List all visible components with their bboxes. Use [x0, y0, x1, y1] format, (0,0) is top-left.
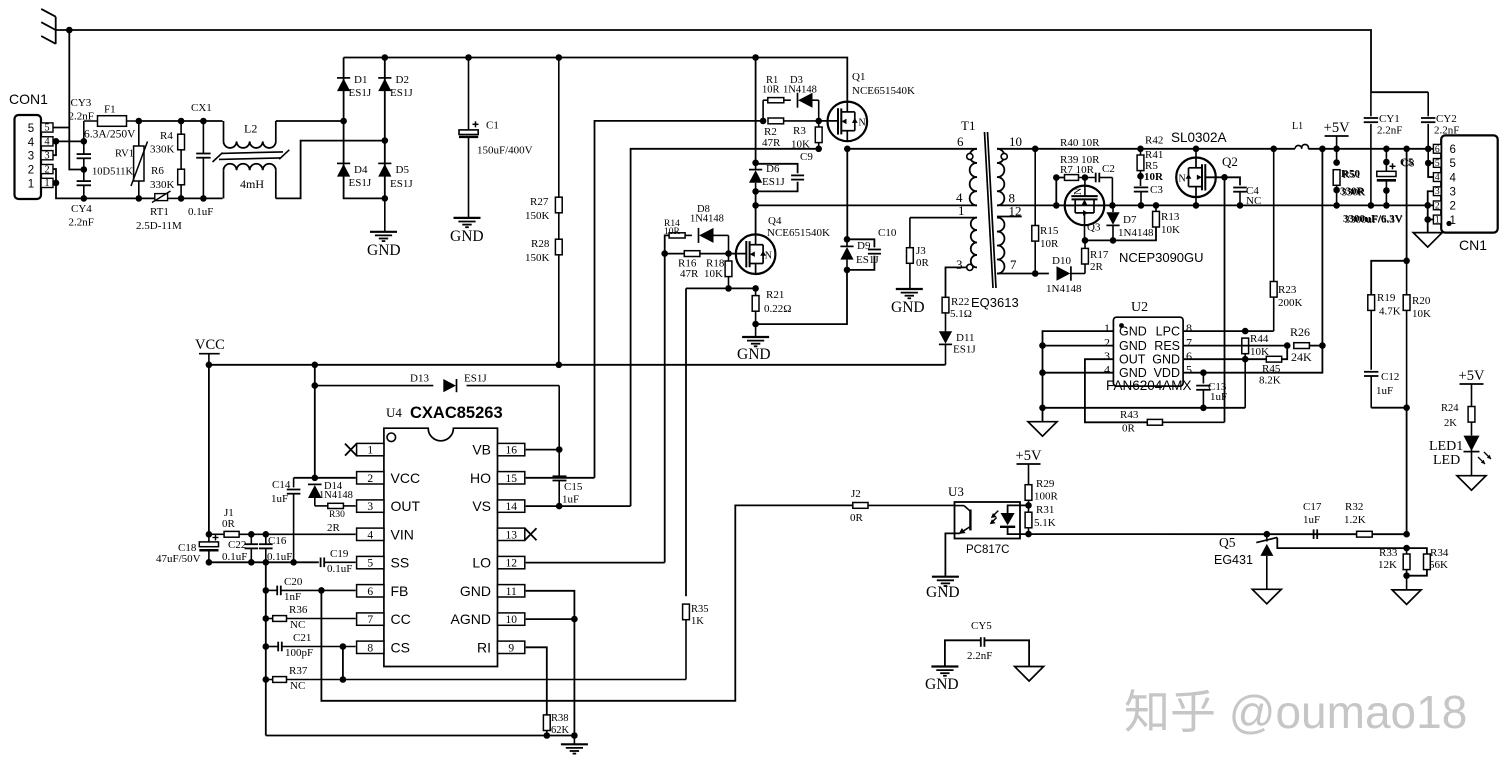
svg-text:GND: GND	[1119, 325, 1147, 339]
svg-text:10R: 10R	[1144, 171, 1164, 183]
svg-text:ES1J: ES1J	[464, 373, 487, 385]
inductor L2 common-mode choke	[223, 121, 225, 141]
svg-text:RT1: RT1	[150, 206, 169, 218]
node D6 bottom	[752, 188, 759, 195]
node C1 top	[465, 54, 472, 61]
svg-text:1: 1	[1104, 321, 1110, 335]
svg-text:LPC: LPC	[1156, 325, 1180, 339]
svg-text:6: 6	[367, 586, 373, 598]
resistor R18	[728, 254, 730, 261]
wire secondary GND rail	[997, 204, 1433, 206]
node R44 bottom	[1242, 356, 1249, 363]
wire gate to Q1	[819, 120, 839, 122]
ground CY5 right triangle	[1015, 667, 1044, 682]
wire U2 pin2	[1043, 345, 1114, 347]
node R50 bottom	[1333, 202, 1340, 209]
wire CON1 pin5 to earth node	[53, 127, 69, 129]
node VCC branch	[312, 362, 319, 369]
svg-text:R6: R6	[151, 165, 164, 177]
svg-text:R13: R13	[1161, 211, 1180, 223]
capacitor C9	[756, 164, 798, 174]
node D14 top	[312, 475, 319, 482]
node R27 top	[556, 54, 563, 61]
svg-text:U3: U3	[948, 484, 964, 499]
svg-text:0R: 0R	[850, 512, 864, 524]
no-connect U4 pin13	[525, 528, 537, 540]
svg-text:C21: C21	[293, 632, 311, 644]
node pin4/CY3/fuse	[81, 138, 88, 145]
capacitor CY3	[77, 153, 91, 155]
capacitor C16	[259, 543, 273, 545]
svg-text:GND: GND	[737, 346, 771, 363]
resistor R34	[1407, 548, 1427, 554]
ground U4 area	[573, 736, 575, 745]
svg-text:R21: R21	[766, 289, 784, 301]
svg-text:1N4148: 1N4148	[1046, 283, 1082, 295]
svg-text:150K: 150K	[525, 252, 550, 264]
svg-text:C20: C20	[284, 576, 303, 588]
svg-text:NC: NC	[1246, 195, 1261, 207]
node gate/OUT	[1221, 174, 1228, 181]
transistor Q2	[1195, 149, 1197, 158]
svg-text:CY5: CY5	[971, 620, 992, 632]
svg-text:NCE651540K: NCE651540K	[852, 85, 915, 97]
resistor R36	[266, 618, 273, 620]
svg-text:R26: R26	[1290, 325, 1310, 339]
svg-text:5: 5	[1186, 363, 1192, 377]
wire VCC pin line	[294, 477, 356, 479]
svg-text:FB: FB	[391, 583, 409, 599]
svg-text:CY1: CY1	[1379, 113, 1400, 125]
svg-text:CON1: CON1	[9, 91, 48, 107]
resistor R27	[558, 58, 560, 198]
svg-text:1nF: 1nF	[284, 591, 301, 603]
wire RES line	[1183, 345, 1287, 347]
connector CON1	[15, 115, 42, 199]
wire U2 pin3 OUT	[1085, 359, 1147, 422]
wire switch node column	[846, 149, 848, 240]
svg-text:N: N	[859, 118, 866, 129]
node R5/C3	[1137, 173, 1144, 180]
svg-text:VCC: VCC	[195, 337, 225, 353]
diode D10	[1070, 266, 1072, 280]
svg-text:CY4: CY4	[71, 203, 92, 215]
svg-text:4.7K: 4.7K	[1379, 306, 1401, 318]
node Q2 source	[1193, 202, 1200, 209]
ground U2 triangle	[1028, 422, 1057, 437]
svg-text:10K: 10K	[1412, 308, 1431, 320]
svg-text:8: 8	[1186, 321, 1192, 335]
svg-text:EG431: EG431	[1214, 553, 1253, 567]
resistor R4	[178, 134, 185, 150]
wire AC line top	[139, 120, 223, 122]
svg-text:0R: 0R	[916, 257, 930, 269]
wire VS line	[631, 149, 819, 506]
svg-text:5: 5	[44, 123, 49, 134]
node CY2/pin5	[1425, 160, 1432, 167]
svg-text:C2: C2	[1102, 163, 1115, 175]
wire Q2 gate	[1206, 177, 1241, 185]
svg-text:CX1: CX1	[191, 102, 212, 114]
svg-text:4: 4	[44, 137, 50, 148]
diode D14	[308, 483, 322, 485]
svg-text:6: 6	[1186, 349, 1192, 363]
svg-text:R34: R34	[1430, 547, 1449, 559]
svg-text:4: 4	[367, 529, 373, 541]
wire bridge left column	[344, 58, 385, 199]
wire SS row line	[209, 561, 319, 563]
node C22 bottom	[248, 559, 255, 566]
node primary pin4	[752, 202, 759, 209]
resistor R17	[1084, 264, 1086, 274]
svg-text:8: 8	[367, 642, 373, 654]
transistor Q3	[1084, 178, 1086, 197]
diode D5	[378, 162, 391, 164]
capacitor C18	[208, 534, 210, 542]
node C13 bottom	[1200, 405, 1207, 412]
svg-text:2.2nF: 2.2nF	[967, 650, 992, 662]
wire pin12 stub	[997, 216, 1022, 218]
svg-text:5: 5	[1435, 159, 1440, 169]
svg-text:N: N	[765, 250, 772, 261]
resistor J3	[909, 218, 911, 248]
node gnd bus corner	[571, 732, 578, 739]
svg-text:56K: 56K	[1429, 559, 1448, 571]
svg-text:R30: R30	[329, 510, 345, 520]
svg-text:330K: 330K	[150, 179, 175, 191]
svg-text:N: N	[1179, 174, 1186, 185]
resistor R44	[1242, 338, 1249, 354]
node R37 left	[263, 676, 270, 683]
svg-text:R28: R28	[531, 238, 550, 250]
svg-text:10R: 10R	[1040, 238, 1059, 250]
svg-text:D10: D10	[1052, 255, 1071, 267]
svg-text:10: 10	[505, 614, 517, 626]
wire D11 to VCC line	[944, 364, 947, 366]
svg-text:1uF: 1uF	[271, 493, 288, 505]
svg-text:R43: R43	[1120, 409, 1139, 421]
node +5V/VDD branch	[1319, 146, 1326, 153]
svg-text:LED1: LED1	[1429, 439, 1463, 454]
node divider mid	[1403, 404, 1410, 411]
svg-text:62K: 62K	[551, 725, 570, 736]
svg-text:R33: R33	[1379, 547, 1398, 559]
svg-text:LED: LED	[1433, 453, 1460, 468]
svg-text:GND: GND	[891, 299, 925, 316]
svg-text:R44: R44	[1250, 333, 1269, 345]
resistor R23	[1273, 149, 1275, 282]
svg-text:PC817C: PC817C	[966, 544, 1009, 556]
capacitor CY4	[77, 180, 91, 182]
svg-text:+5V: +5V	[1324, 120, 1350, 136]
node C21 left	[263, 643, 270, 650]
svg-text:Q3: Q3	[1087, 222, 1101, 234]
resistor R14	[665, 235, 669, 253]
node Q4 gate net	[661, 250, 668, 257]
svg-text:3: 3	[956, 257, 963, 272]
svg-text:Q2: Q2	[1222, 154, 1238, 169]
wire OUT drive vertical	[1224, 177, 1226, 422]
node pins 1-2	[53, 180, 60, 187]
resistor R26	[1294, 343, 1310, 349]
node U2 pin2	[1039, 342, 1046, 349]
wire earth top rail	[56, 30, 1371, 92]
svg-text:CN1: CN1	[1459, 237, 1487, 253]
wire U2 pin4	[1043, 372, 1114, 374]
svg-text:2K: 2K	[1444, 418, 1457, 429]
svg-text:R35: R35	[691, 604, 709, 615]
svg-text:+5V: +5V	[1459, 368, 1485, 384]
capacitor C14	[293, 478, 295, 488]
svg-text:R36: R36	[289, 604, 308, 616]
svg-text:6: 6	[957, 134, 964, 149]
resistor J1	[209, 533, 224, 535]
svg-text:5: 5	[28, 123, 34, 135]
svg-text:3: 3	[1435, 187, 1440, 197]
svg-text:D1: D1	[354, 74, 367, 86]
wire pin1 line	[910, 217, 977, 219]
svg-text:5.1K: 5.1K	[1034, 517, 1056, 529]
node REF junction	[1403, 545, 1410, 552]
node AGND	[571, 616, 578, 623]
svg-text:CC: CC	[391, 611, 411, 627]
node +5V stub	[1333, 146, 1340, 153]
svg-text:R42: R42	[1145, 135, 1163, 147]
svg-text:OUT: OUT	[391, 498, 421, 514]
svg-text:47R: 47R	[762, 137, 781, 149]
svg-text:1N4148: 1N4148	[1118, 227, 1154, 239]
node D9 bottom	[844, 267, 851, 274]
node Q4 source	[752, 285, 759, 292]
resistor R50	[1336, 149, 1338, 164]
capacitor CY5	[945, 640, 981, 666]
node C20 left	[263, 587, 270, 594]
capacitor C10	[847, 239, 874, 247]
wire R7 branch up	[1056, 178, 1064, 206]
wire pin3 link	[1428, 191, 1434, 232]
ground CY5 left	[931, 665, 958, 667]
svg-text:L2: L2	[244, 122, 257, 136]
wire L2 top out to bridge	[276, 120, 344, 122]
diode D8	[698, 228, 700, 243]
svg-text:7: 7	[1186, 336, 1192, 350]
node CY3/CY4 midpoint	[81, 166, 88, 173]
svg-text:1N4148: 1N4148	[690, 214, 724, 225]
svg-text:10K: 10K	[704, 268, 723, 280]
svg-text:0.22Ω: 0.22Ω	[764, 303, 791, 315]
svg-text:C14: C14	[272, 479, 291, 491]
svg-text:ES1J: ES1J	[953, 344, 976, 356]
capacitor C21	[277, 642, 279, 652]
svg-text:D13: D13	[410, 373, 429, 385]
svg-text:RES: RES	[1154, 339, 1180, 353]
svg-text:D2: D2	[396, 74, 409, 86]
svg-text:R27: R27	[530, 196, 549, 208]
wire divider to FB	[1406, 408, 1408, 535]
wire U2 pin1	[1043, 331, 1114, 422]
resistor R43	[1147, 419, 1162, 425]
svg-text:ES1J: ES1J	[390, 87, 413, 99]
svg-text:1: 1	[1435, 216, 1440, 226]
wire VCC down to VIN	[208, 365, 210, 535]
svg-text:330K: 330K	[150, 144, 175, 156]
wire D6 to pin4 line	[755, 191, 757, 234]
node R18 top	[725, 250, 732, 257]
node R38 bottom	[544, 732, 551, 739]
svg-text:R7 10R: R7 10R	[1060, 164, 1095, 176]
resistor R15	[1034, 149, 1036, 226]
svg-text:SS: SS	[391, 555, 410, 571]
svg-text:15: 15	[505, 473, 517, 485]
node R23 top	[1270, 146, 1277, 153]
svg-text:J2: J2	[851, 488, 861, 500]
diode D4	[337, 162, 350, 164]
resistor R3	[818, 121, 820, 127]
node R44 top	[1242, 328, 1249, 335]
node C4 bottom	[1237, 202, 1244, 209]
svg-text:2.2nF: 2.2nF	[1377, 125, 1402, 137]
svg-text:ES1J: ES1J	[349, 177, 372, 189]
node R7 left	[1053, 174, 1060, 181]
svg-text:8.2K: 8.2K	[1259, 375, 1281, 387]
svg-text:7: 7	[367, 614, 373, 626]
svg-text:1K: 1K	[691, 616, 704, 627]
node C13 top	[1200, 369, 1207, 376]
svg-text:12: 12	[505, 558, 517, 570]
svg-text:1N4148: 1N4148	[319, 490, 353, 501]
svg-text:ES1J: ES1J	[762, 176, 785, 188]
resistor R28	[555, 239, 562, 255]
svg-text:HO: HO	[470, 470, 491, 486]
wire VS pin line	[526, 505, 631, 507]
svg-text:13: 13	[505, 529, 517, 541]
node R18 bottom	[725, 285, 732, 292]
svg-text:R22: R22	[951, 296, 969, 308]
svg-text:330R: 330R	[1342, 187, 1367, 199]
diode D11	[939, 343, 952, 345]
resistor R13	[1155, 205, 1157, 211]
svg-text:2R: 2R	[327, 522, 341, 534]
node earth/CY3 junction	[66, 27, 73, 34]
svg-text:0.1uF: 0.1uF	[222, 551, 247, 563]
svg-text:ES1J: ES1J	[349, 87, 372, 99]
svg-text:D5: D5	[396, 164, 410, 176]
svg-text:3: 3	[1450, 187, 1456, 199]
svg-text:CY2: CY2	[1436, 113, 1457, 125]
node pin1	[1424, 216, 1431, 223]
svg-text:C3: C3	[1150, 184, 1163, 196]
svg-text:D11: D11	[956, 332, 975, 344]
svg-text:47uF/50V: 47uF/50V	[156, 553, 201, 565]
resistor R1	[762, 100, 764, 121]
wire U2 gnd line	[1043, 407, 1246, 409]
resistor J2	[853, 503, 868, 509]
svg-text:2.2nF: 2.2nF	[69, 217, 94, 229]
svg-text:R19: R19	[1377, 292, 1396, 304]
wire earth to CY3/CY4 midpoint	[69, 128, 84, 170]
capacitor C20	[276, 586, 278, 596]
wire pin7 line	[997, 273, 1049, 275]
resistor R30	[315, 505, 328, 507]
capacitor C17	[1313, 529, 1315, 539]
svg-text:R29: R29	[1036, 478, 1055, 490]
ground C1	[454, 217, 481, 219]
wire LO pin line	[526, 562, 665, 564]
diode D3	[797, 93, 799, 108]
svg-text:0.1uF: 0.1uF	[267, 551, 292, 563]
resistor R7	[1065, 175, 1079, 181]
svg-text:0R: 0R	[1122, 423, 1136, 435]
capacitor C1	[468, 58, 470, 130]
svg-text:OUT: OUT	[1119, 353, 1146, 367]
svg-text:AGND: AGND	[451, 611, 491, 627]
svg-text:R3: R3	[793, 125, 806, 137]
node R28/VCC line	[556, 362, 563, 369]
diode D13	[315, 385, 434, 387]
svg-text:C10: C10	[878, 227, 897, 239]
svg-text:C16: C16	[268, 535, 287, 547]
resistor R2	[768, 118, 784, 124]
node R32/divider	[1403, 531, 1410, 538]
node Q3 source sense	[1082, 237, 1089, 244]
node C14 bottom	[290, 559, 297, 566]
IC U4	[384, 428, 498, 666]
svg-text:R15: R15	[1040, 225, 1059, 237]
svg-text:4: 4	[1104, 363, 1110, 377]
svg-text:R24: R24	[1441, 403, 1459, 414]
IC U2	[1113, 317, 1183, 386]
node R19/R20 top	[1403, 258, 1410, 265]
node C15 bottom	[556, 503, 563, 510]
resistor R19	[1371, 261, 1406, 295]
svg-text:1: 1	[28, 178, 34, 190]
wire sense line	[1085, 227, 1156, 241]
svg-text:47R: 47R	[680, 268, 699, 280]
svg-text:R32: R32	[1345, 501, 1363, 513]
capacitor C19	[320, 558, 322, 568]
node CY2/+5V	[1425, 146, 1432, 153]
wire REF line	[1287, 547, 1407, 549]
wire FB bus left	[265, 562, 267, 735]
wire pin4 link	[1428, 163, 1433, 177]
node fuse/RV1	[136, 118, 143, 125]
svg-text:5.1Ω: 5.1Ω	[950, 308, 972, 320]
node Q1 gate net	[760, 118, 767, 125]
svg-text:150K: 150K	[525, 210, 550, 222]
svg-text:N: N	[1073, 188, 1084, 195]
node FB tap	[318, 587, 325, 594]
transistor Q4	[736, 234, 776, 274]
svg-text:2: 2	[1450, 201, 1456, 213]
svg-text:R4: R4	[160, 130, 173, 142]
node U2 gnd line	[1039, 405, 1046, 412]
wire CS tap down	[342, 647, 344, 680]
svg-text:C17: C17	[1303, 501, 1322, 513]
thermistor RT1	[155, 194, 168, 201]
capacitor CY1	[1370, 92, 1372, 116]
svg-text:Q1: Q1	[852, 71, 865, 83]
wire CON1 pin3 link	[53, 141, 56, 155]
svg-text:LO: LO	[472, 555, 491, 571]
resistor R21	[755, 288, 757, 295]
transistor Q5 EG431	[1266, 534, 1268, 541]
node R26/R45	[1284, 342, 1291, 349]
svg-text:FAN6204AMX: FAN6204AMX	[1106, 378, 1192, 393]
svg-text:GND: GND	[1119, 339, 1147, 353]
svg-text:R40 10R: R40 10R	[1060, 137, 1100, 149]
wire pin6 line	[1183, 358, 1266, 360]
svg-text:1uF: 1uF	[1303, 514, 1320, 526]
